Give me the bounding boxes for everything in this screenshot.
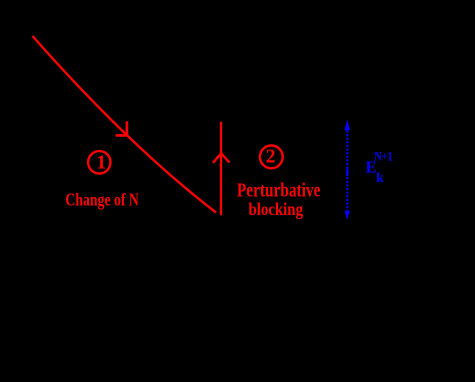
wire: red vertical line <box>220 122 222 216</box>
blue arrowhead bottom <box>345 211 350 220</box>
node 1: circled 1 <box>88 151 110 173</box>
arrowhead on diagonal line <box>116 121 127 135</box>
blue dotted double arrow shaft <box>346 131 348 211</box>
node 2: circled 2 <box>260 146 283 169</box>
svg-text:2: 2 <box>266 147 276 168</box>
svg-text:k: k <box>376 170 384 185</box>
svg-text:Change of N: Change of N <box>65 190 138 210</box>
svg-text:blocking: blocking <box>249 199 304 219</box>
svg-text:N+1: N+1 <box>374 149 393 163</box>
wire: red diagonal flow line <box>33 36 217 213</box>
blue arrowhead top <box>344 119 350 130</box>
svg-text:Perturbative: Perturbative <box>237 179 321 201</box>
blue solid middle dash <box>346 169 348 176</box>
svg-text:1: 1 <box>96 153 106 174</box>
arrowhead up on vertical line <box>213 153 230 163</box>
